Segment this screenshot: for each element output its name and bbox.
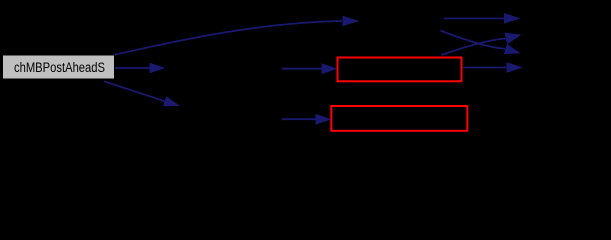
node red box 2 (331, 106, 467, 131)
wire: top right horizontal edge (444, 13, 521, 24)
node chMBPostAheadS (current node, grey filled) (3, 55, 115, 79)
wire: edge into red box 2 (282, 114, 332, 125)
node red box 1 (338, 58, 462, 82)
wire: short horizontal edge from chMBPostAheadS (115, 63, 166, 74)
svg-text:chMBPostAheadS: chMBPostAheadS (14, 60, 105, 75)
wire: diagonal edge down-right from chMBPostAheadS (104, 81, 180, 106)
wire: crossing edge going up-right from red box 1 (442, 33, 522, 55)
wire: horizontal edge from red box 1 right edge (463, 62, 523, 73)
wire: curved edge from chMBPostAheadS to top invisible node (105, 16, 359, 57)
wire: edge into red box 1 (282, 63, 338, 74)
wire: crossing edge going down-right (441, 31, 521, 55)
